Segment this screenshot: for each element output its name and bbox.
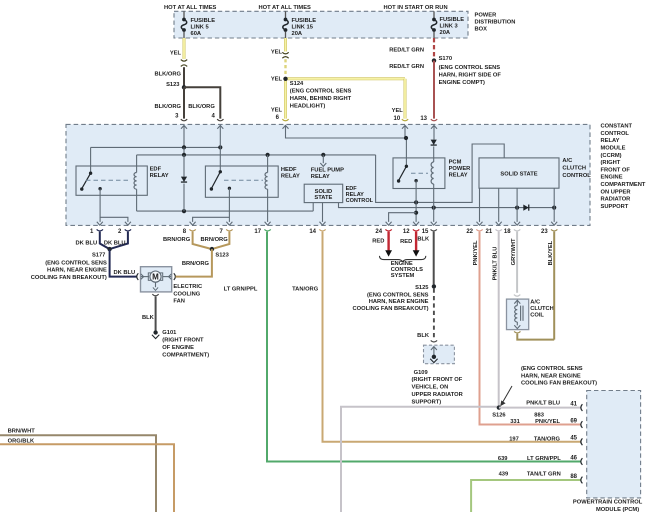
wire PNK/LT BLU pin 21 to S126 — [498, 232, 500, 407]
wire BLK dashed S125 to G109 — [433, 289, 435, 338]
wire pin 3 column bus A to bus B — [183, 147, 185, 155]
wire YEL from fusible link 15 — [284, 38, 287, 52]
pin 15 exit arrow — [431, 222, 437, 225]
wire EDF output split to pins 1,2 — [100, 189, 128, 222]
bus B coil feed — [137, 154, 376, 156]
svg-text:RADIATOR: RADIATOR — [601, 197, 632, 203]
svg-text:PNK/LT BLU: PNK/LT BLU — [526, 401, 560, 407]
fan bottom connector arc — [152, 294, 158, 296]
HEDF relay switch output contact — [228, 187, 231, 190]
svg-text:S177: S177 — [92, 252, 105, 258]
AC coil connector arc bottom — [514, 331, 520, 333]
AC coil connector arc top — [514, 295, 520, 297]
wire pin 6 internal to pin 10 column — [286, 125, 406, 138]
pin 17 exit arrow — [265, 222, 271, 225]
wire AC module terminal pin 22 — [479, 188, 481, 222]
svg-text:MODULE: MODULE — [601, 146, 626, 152]
svg-text:46: 46 — [570, 455, 577, 461]
wire RED pin 24 — [387, 232, 389, 251]
HEDF relay mechanical link — [224, 179, 263, 181]
svg-text:FUEL PUMP: FUEL PUMP — [311, 168, 344, 174]
junction pin6/pin10 — [404, 136, 408, 140]
junction bus A pin 4 — [218, 145, 222, 149]
svg-text:(ENG CONTROL SENS: (ENG CONTROL SENS — [367, 292, 429, 298]
svg-text:RELAY: RELAY — [281, 174, 300, 180]
svg-text:HARN, NEAR ENGINE: HARN, NEAR ENGINE — [521, 373, 581, 379]
connector arc pin 7 bottom — [226, 229, 232, 231]
junction relay control / pin 15 column — [432, 206, 436, 210]
junction bus A pin 3 — [182, 145, 186, 149]
HEDF relay switch blade — [211, 172, 220, 189]
svg-text:PNK/YEL: PNK/YEL — [535, 419, 560, 425]
svg-text:20A: 20A — [440, 30, 451, 36]
svg-text:POWER: POWER — [475, 12, 498, 18]
svg-text:CONTROL: CONTROL — [346, 198, 374, 204]
svg-text:RED: RED — [400, 239, 412, 245]
splice S170 — [432, 58, 436, 62]
EDF relay mechanical link — [86, 179, 131, 181]
pin 24 exit arrow — [386, 222, 392, 225]
svg-text:HEDF: HEDF — [281, 167, 297, 173]
svg-text:BLK/ORG: BLK/ORG — [154, 71, 181, 77]
AC clutch coil winding — [515, 306, 518, 322]
svg-text:(ENG CONTROL SENS: (ENG CONTROL SENS — [290, 89, 352, 95]
svg-text:BRN/ORG: BRN/ORG — [201, 237, 229, 243]
pin 12 exit arrow — [413, 222, 419, 225]
pin 6 entry arrow — [283, 125, 289, 128]
PCM module box — [587, 391, 641, 498]
junction bus B fuel pump tap — [321, 153, 325, 157]
svg-text:(CCRM): (CCRM) — [601, 153, 622, 159]
svg-text:G101: G101 — [162, 330, 177, 336]
svg-text:HARN, RIGHT SIDE OF: HARN, RIGHT SIDE OF — [439, 73, 502, 79]
pin 7 exit arrow — [226, 222, 232, 225]
svg-text:S123: S123 — [215, 252, 228, 258]
fan connector right — [174, 273, 176, 280]
fuel pump relay tap — [322, 155, 324, 163]
PCM pin 88 connector — [581, 477, 583, 484]
svg-text:883: 883 — [534, 413, 544, 419]
svg-text:BRN/ORG: BRN/ORG — [163, 237, 191, 243]
splice S177 — [107, 247, 111, 251]
junction pin 12 / pin 24 stub — [414, 211, 418, 215]
wire ORG/BLK input — [0, 444, 174, 512]
connector arc pin 12 bottom — [413, 229, 419, 231]
svg-text:COIL: COIL — [530, 313, 544, 319]
connector arc pin 15 bottom — [431, 229, 437, 231]
connector arc pin 21 bottom — [496, 229, 502, 231]
svg-text:12: 12 — [403, 229, 410, 235]
svg-text:LINK 15: LINK 15 — [292, 25, 314, 31]
svg-text:YEL: YEL — [271, 76, 283, 82]
PCM relay switch output contact — [414, 179, 417, 182]
svg-text:CONTROL: CONTROL — [562, 173, 591, 179]
svg-text:(RIGHT: (RIGHT — [601, 160, 621, 166]
pin 18 exit arrow — [514, 222, 520, 225]
A/C clutch coil box — [507, 299, 529, 330]
wire EDF coil bottom bus — [137, 210, 314, 212]
svg-text:CLUTCH: CLUTCH — [530, 306, 554, 312]
svg-text:20A: 20A — [292, 31, 303, 37]
svg-text:ON UPPER: ON UPPER — [601, 189, 632, 195]
HEDF relay coil — [267, 155, 269, 173]
connector arc pin 14 bottom — [319, 229, 325, 231]
svg-text:CONSTANT: CONSTANT — [601, 124, 633, 130]
diode D3 — [523, 205, 528, 211]
junction diode D1 bottom — [182, 209, 186, 213]
connector arc pin 23 bottom — [551, 229, 557, 231]
svg-text:24: 24 — [375, 229, 382, 235]
svg-text:UPPER RADIATOR: UPPER RADIATOR — [412, 392, 464, 398]
wire TAN/ORG pin 14 to PCM 45 — [323, 232, 581, 442]
PCM relay mechanical link — [411, 172, 428, 174]
EDF relay switch output contact — [98, 187, 101, 190]
svg-text:HARN, NEAR ENGINE: HARN, NEAR ENGINE — [369, 299, 429, 305]
svg-text:M: M — [152, 273, 159, 282]
svg-text:(ENG CONTROL SENS: (ENG CONTROL SENS — [439, 65, 501, 71]
splice S123 — [182, 85, 186, 89]
connector arc pin 2 bottom — [125, 229, 131, 231]
wire YEL dashed to splice S124 — [284, 59, 286, 76]
svg-text:RELAY: RELAY — [311, 174, 330, 180]
connector arc pin 22 bottom — [476, 229, 482, 231]
fan motor symbol — [141, 276, 149, 278]
svg-text:BRN/WHT: BRN/WHT — [8, 428, 36, 434]
pin 14 exit arrow — [320, 222, 326, 225]
CCRM module box — [66, 124, 590, 225]
svg-text:STATE: STATE — [314, 195, 332, 201]
wire BLK pin 15 to S125 — [433, 232, 435, 285]
pin 2 exit arrow — [125, 222, 131, 225]
splice S126 — [497, 405, 501, 409]
svg-text:(RIGHT FRONT: (RIGHT FRONT — [162, 338, 204, 344]
svg-text:COOLING: COOLING — [173, 291, 200, 297]
svg-text:23: 23 — [541, 229, 548, 235]
inline connector C2 — [282, 52, 288, 54]
wire BRN/ORG S123 to fan — [176, 249, 212, 277]
wire LT GRN/PPL pin 17 to PCM 46 — [267, 232, 581, 462]
pin 3 entry arrow — [181, 125, 187, 128]
pin 8 exit arrow — [190, 222, 196, 225]
svg-text:CONTROL: CONTROL — [601, 131, 630, 137]
brace engine controls — [380, 256, 426, 262]
wire YEL S124 to pin 6 — [284, 79, 287, 119]
svg-text:HOT AT ALL TIMES: HOT AT ALL TIMES — [259, 5, 312, 11]
HEDF relay box — [205, 166, 278, 197]
wire PCM relay output to pin 12 — [415, 181, 417, 222]
pin 4 entry arrow — [217, 125, 223, 128]
svg-text:FUSIBLE: FUSIBLE — [191, 18, 216, 24]
inline connector C1 — [181, 60, 187, 62]
wire pin 24 stub — [389, 213, 417, 222]
svg-text:LINK 3: LINK 3 — [440, 24, 458, 30]
wire AC module terminal pin 18 — [516, 188, 518, 222]
A/C clutch control solid state box — [479, 158, 559, 188]
svg-text:15: 15 — [422, 229, 429, 235]
pin 13 entry arrow — [431, 125, 437, 128]
wire solid state left terminal — [312, 203, 314, 212]
svg-text:22: 22 — [466, 229, 473, 235]
EDF relay switch blade — [82, 173, 91, 188]
wire YEL S124 to pin 10 — [286, 77, 406, 80]
svg-text:SUPPORT): SUPPORT) — [412, 399, 442, 405]
svg-text:639: 639 — [498, 456, 508, 462]
wire PNK/LT BLU S126 to PCM 41 — [499, 407, 581, 409]
power distribution box — [174, 11, 468, 38]
svg-text:21: 21 — [486, 229, 493, 235]
svg-text:ORG/BLK: ORG/BLK — [8, 438, 35, 444]
svg-text:COMPARTMENT: COMPARTMENT — [601, 182, 646, 188]
wire YEL from fusible link 5 — [183, 38, 186, 59]
wire RED/LT GRN dashed from fusible link 3 — [433, 38, 435, 59]
wire HEDF output split to pins 8,7 — [228, 188, 230, 222]
wire AC module terminal pin 21 — [498, 188, 500, 222]
svg-text:HOT IN START OR RUN: HOT IN START OR RUN — [384, 5, 448, 11]
connector arc pin 6 — [282, 119, 288, 121]
G109 connector arc — [431, 340, 437, 342]
svg-text:POWERTRAIN CONTROL: POWERTRAIN CONTROL — [573, 500, 643, 506]
splice S125 — [432, 284, 436, 288]
wire BLK fan to G101 — [155, 296, 157, 330]
wire AC module terminal pin 23 — [553, 188, 555, 222]
svg-text:DK BLU: DK BLU — [113, 270, 135, 276]
svg-text:FAN: FAN — [173, 299, 185, 305]
svg-text:LT GRN/PPL: LT GRN/PPL — [224, 287, 258, 293]
svg-text:ENGINE: ENGINE — [391, 261, 413, 267]
svg-text:18: 18 — [504, 229, 511, 235]
svg-text:S170: S170 — [439, 56, 452, 62]
svg-text:DISTRIBUTION: DISTRIBUTION — [475, 20, 516, 26]
svg-text:SUPPORT: SUPPORT — [601, 204, 629, 210]
svg-text:VEHICLE, ON: VEHICLE, ON — [412, 385, 449, 391]
fan connector left — [137, 273, 139, 280]
HEDF relay switch open contact — [210, 187, 213, 190]
svg-text:YEL: YEL — [392, 108, 404, 114]
ground G101 — [153, 330, 157, 334]
svg-text:TAN/LT GRN: TAN/LT GRN — [527, 472, 561, 478]
wire pin 4 column to HEDF switch — [219, 125, 221, 171]
wire BLK/ORG to splice S123 — [183, 67, 185, 87]
svg-text:(ENG CONTROL SENS: (ENG CONTROL SENS — [521, 366, 583, 372]
wire BLK/ORG branch to pin 4 — [184, 87, 220, 118]
HEDF relay switch pivot — [219, 170, 222, 173]
svg-text:COMPARTMENT): COMPARTMENT) — [162, 352, 209, 358]
wire bus B extension to AC module — [376, 144, 505, 202]
wire bus A to EDF switch — [90, 147, 92, 173]
wire pin 3 column into bus A — [183, 125, 185, 147]
svg-text:SOLID STATE: SOLID STATE — [500, 172, 537, 178]
PCM relay coil — [433, 158, 435, 162]
wire pin 10 to PCM relay switch — [404, 125, 406, 138]
ground G109 box — [424, 345, 455, 364]
PCM pin 46 connector — [581, 458, 583, 465]
svg-text:A/C: A/C — [530, 300, 540, 306]
svg-text:LT GRN/PPL: LT GRN/PPL — [527, 456, 561, 462]
AC coil exit arrow — [514, 325, 520, 328]
svg-text:DK BLU: DK BLU — [104, 240, 126, 246]
ground G109 symbol — [432, 355, 436, 359]
svg-text:HEADLIGHT): HEADLIGHT) — [290, 103, 326, 109]
splice S123 lower — [210, 247, 214, 251]
svg-text:FRONT OF: FRONT OF — [601, 167, 631, 173]
svg-text:YEL: YEL — [170, 50, 182, 56]
svg-text:RELAY: RELAY — [449, 173, 468, 179]
svg-text:69: 69 — [570, 418, 577, 424]
connector arc pin 18 bottom — [514, 229, 520, 231]
svg-text:A/C: A/C — [562, 158, 572, 164]
wire RED pin 12 — [415, 232, 417, 251]
svg-text:LINK 5: LINK 5 — [191, 25, 210, 31]
svg-text:G109: G109 — [414, 370, 428, 376]
svg-text:RELAY: RELAY — [601, 138, 620, 144]
junction bus B diode column — [182, 153, 186, 157]
svg-text:CLUTCH: CLUTCH — [562, 166, 586, 172]
PCM relay switch blade — [399, 166, 407, 180]
pin 10 entry arrow — [402, 125, 408, 128]
PCM pin 69 connector — [581, 421, 583, 428]
svg-text:17: 17 — [254, 229, 261, 235]
svg-text:RED: RED — [372, 239, 384, 245]
pin 23 exit arrow — [551, 222, 557, 225]
svg-text:TAN/ORG: TAN/ORG — [292, 287, 319, 293]
wire DK BLU pin 1 — [100, 232, 110, 250]
AC coil entry arrow — [514, 300, 520, 303]
svg-text:14: 14 — [309, 229, 316, 235]
electric cooling fan box — [141, 267, 172, 292]
pin 21 exit arrow — [496, 222, 502, 225]
diode D2 on pin 13 feed — [433, 125, 435, 139]
svg-text:RELAY: RELAY — [150, 173, 169, 179]
junction bus B HEDF coil — [266, 153, 270, 157]
svg-text:(RIGHT FRONT OF: (RIGHT FRONT OF — [412, 377, 463, 383]
PCM relay switch open contact — [397, 179, 400, 182]
junction relay control / pin 23 column — [552, 206, 556, 210]
pin 22 exit arrow — [477, 222, 483, 225]
svg-text:ENGINE COMPT): ENGINE COMPT) — [439, 80, 485, 86]
svg-text:S126: S126 — [492, 413, 505, 419]
wire PNK/LT BLU stub from bottom — [341, 407, 497, 512]
wire solid state center terminal to pin 14 — [322, 203, 324, 222]
svg-text:S123: S123 — [166, 82, 179, 88]
svg-text:197: 197 — [509, 437, 519, 443]
svg-text:SYSTEM: SYSTEM — [391, 273, 415, 279]
wire DK BLU pin 2 — [110, 232, 128, 250]
wire GRY/WHT pin 18 to AC clutch coil — [516, 232, 518, 293]
fusible link 5 — [183, 11, 185, 18]
svg-text:BLK: BLK — [142, 315, 155, 321]
svg-text:13: 13 — [420, 116, 427, 122]
splice S124 — [283, 77, 287, 81]
svg-text:ENGINE: ENGINE — [601, 175, 623, 181]
junction bus B ext / pin 12 column — [414, 200, 418, 204]
connector arc pin 13 — [431, 119, 437, 121]
wire BRN/ORG pin 7 — [212, 232, 230, 250]
svg-text:45: 45 — [570, 436, 577, 442]
svg-text:POWER: POWER — [449, 166, 472, 172]
wire BRN/ORG pin 8 — [193, 232, 212, 250]
EDF relay switch open contact — [80, 187, 83, 190]
connector arc pin 1 bottom — [97, 229, 103, 231]
PCM power relay box — [393, 158, 445, 189]
wire DK BLU S177 to fan — [110, 249, 137, 277]
svg-text:COOLING FAN BREAKOUT): COOLING FAN BREAKOUT) — [352, 306, 428, 312]
svg-text:YEL: YEL — [271, 50, 283, 56]
fusible link 15 — [285, 11, 287, 18]
svg-text:RED/LT GRN: RED/LT GRN — [389, 64, 424, 70]
connector arc pin 4 — [217, 119, 223, 121]
svg-text:CONTROLS: CONTROLS — [391, 267, 423, 273]
svg-text:BLK/YEL: BLK/YEL — [548, 240, 554, 265]
svg-text:COOLING FAN BREAKOUT): COOLING FAN BREAKOUT) — [521, 381, 597, 387]
svg-text:OF ENGINE: OF ENGINE — [162, 345, 194, 351]
wire BLK/ORG pin 3 drop — [183, 87, 185, 118]
G109 entry arrow — [431, 347, 437, 350]
EDF relay switch pivot — [89, 172, 92, 175]
svg-text:PCM: PCM — [449, 159, 462, 165]
connector arc pin 10 — [402, 119, 408, 121]
svg-text:FUSIBLE: FUSIBLE — [292, 18, 317, 24]
svg-text:HARN, BEHIND RIGHT: HARN, BEHIND RIGHT — [290, 96, 352, 102]
svg-text:S124: S124 — [290, 81, 304, 87]
svg-text:COOLING FAN BREAKOUT): COOLING FAN BREAKOUT) — [31, 275, 107, 281]
connector arc pin 17 bottom — [264, 229, 270, 231]
svg-text:MODULE (PCM): MODULE (PCM) — [596, 507, 639, 512]
PCM pin 45 connector — [581, 438, 583, 445]
wire BLK/YEL coil bottom link — [517, 334, 554, 340]
svg-text:S125: S125 — [415, 285, 429, 291]
EDF relay coil — [136, 155, 138, 173]
wire RED/LT GRN to pin 13 — [433, 61, 435, 119]
svg-text:BLK/ORG: BLK/ORG — [154, 104, 181, 110]
svg-text:EDF: EDF — [150, 166, 162, 172]
svg-text:BLK: BLK — [417, 333, 430, 339]
svg-text:FUSIBLE: FUSIBLE — [440, 17, 465, 23]
svg-text:TAN/ORG: TAN/ORG — [534, 437, 561, 443]
svg-text:RED/LT GRN: RED/LT GRN — [389, 47, 424, 53]
svg-text:10: 10 — [394, 116, 401, 122]
svg-text:(ENG CONTROL SENS: (ENG CONTROL SENS — [45, 261, 107, 267]
wire PNK/YEL pin 22 to PCM 69 — [480, 232, 581, 425]
EDF relay box — [76, 166, 147, 195]
connector arc pin 8 bottom — [189, 229, 195, 231]
svg-text:BLK/ORG: BLK/ORG — [188, 104, 215, 110]
svg-text:331: 331 — [510, 419, 520, 425]
svg-text:HOT AT ALL TIMES: HOT AT ALL TIMES — [164, 5, 217, 11]
svg-text:41: 41 — [570, 401, 577, 407]
fan motor ground stub — [155, 282, 157, 287]
svg-text:PNK/LT BLU: PNK/LT BLU — [493, 247, 499, 281]
svg-text:BLK: BLK — [417, 237, 430, 243]
pin 1 exit arrow — [97, 222, 103, 225]
PCM pin 41 connector — [581, 404, 583, 411]
svg-text:ELECTRIC: ELECTRIC — [173, 284, 202, 290]
junction relay control / pin 18 column — [515, 206, 519, 210]
PCM relay switch pivot — [405, 165, 408, 168]
wire EDF relay control line — [339, 203, 555, 208]
svg-text:BOX: BOX — [475, 27, 488, 33]
svg-text:GRY/WHT: GRY/WHT — [511, 238, 517, 265]
fuel pump solid state box — [304, 184, 343, 202]
svg-text:88: 88 — [570, 474, 577, 480]
svg-text:BRN/ORG: BRN/ORG — [182, 261, 210, 267]
wire TAN/LT GRN to PCM 88 — [471, 480, 581, 512]
bus A battery feed — [91, 146, 221, 148]
fusible link 3 — [433, 11, 435, 18]
connector arc pin 24 bottom — [385, 229, 391, 231]
wire BLK/YEL pin 23 riser — [553, 232, 555, 340]
wire BRN/WHT input — [0, 435, 156, 512]
svg-text:439: 439 — [499, 472, 509, 478]
